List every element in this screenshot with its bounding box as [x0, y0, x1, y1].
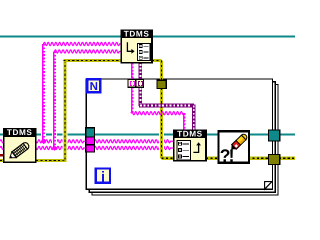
wire string-array 1 left segment [0, 140, 87, 143]
wire maroon into left node [0, 154, 5, 156]
wire string-array 2 left segment [0, 146, 87, 149]
tunnel magenta 2 left border [86, 145, 95, 152]
wire error inner node to handler [206, 157, 219, 160]
wire A vertical below tunnel [132, 87, 133, 114]
wire error left-node to corner [36, 159, 66, 162]
page curl (folded corner of front sheet) [265, 182, 272, 190]
for-loop stacked sheet 2 (middle) [89, 82, 275, 192]
wire B vertical below tunnel [139, 87, 143, 106]
svg-text:TDMS: TDMS [124, 29, 150, 38]
wire B vertical above tunnel [139, 63, 143, 80]
node TDMS Set Properties (top) [120, 29, 152, 62]
wire teal refnum middle [0, 134, 295, 136]
wire B chain horizontal [139, 104, 194, 108]
junction dot string-array 1 [41, 139, 47, 145]
wire string-array branch 1 vertical [41, 46, 46, 139]
svg-text:i: i [101, 170, 105, 186]
wire error top-node to corner [152, 59, 162, 62]
wire string-array branch 2 vertical [52, 54, 57, 147]
for-loop front sheet border [86, 79, 272, 189]
iteration terminal i [96, 169, 110, 183]
junction dot string-array 2 [52, 145, 58, 151]
for-loop stacked sheet 3 (back) [92, 85, 278, 196]
loop count terminal N [87, 79, 100, 92]
tunnel teal right border [268, 130, 279, 141]
tunnel auto-index 2 top border [136, 80, 144, 88]
svg-text:N: N [90, 81, 98, 93]
tunnel magenta 1 left border [86, 137, 95, 145]
wire error left stub [0, 159, 5, 162]
wire string-array 1 inside loop [94, 140, 174, 143]
wire string-array 2 inside loop [94, 146, 174, 149]
wire B vertical down to inner node [192, 105, 196, 132]
node TDMS Open (left, pencil icon) [3, 128, 37, 162]
wire teal refnum top [0, 36, 295, 38]
wire A vertical down to inner node [184, 113, 185, 131]
wire error handler to right edge [248, 157, 295, 160]
wire string-array branch 2 horizontal to top node [55, 50, 122, 53]
wire string-array branch 1 horizontal to top node [44, 42, 122, 45]
wire error to inner tdms node [162, 157, 175, 160]
tunnel error right border [268, 154, 279, 164]
wire error corner vertical up [62, 63, 67, 159]
svg-text:TDMS: TDMS [177, 129, 203, 138]
tunnel error top border [157, 80, 166, 88]
node TDMS Write (inner) [173, 129, 207, 160]
wire error corner down to tunnel [160, 61, 163, 81]
tunnel auto-index 1 top border [128, 80, 136, 88]
svg-text:TDMS: TDMS [7, 128, 33, 137]
wire error tunnel into loop [159, 90, 164, 156]
wire error into top node [63, 59, 121, 62]
tunnel teal left border [86, 128, 95, 137]
wire A vertical above tunnel [132, 63, 133, 80]
wire A wavy horizontal [131, 112, 184, 115]
node Simple Error Handler [219, 131, 249, 163]
